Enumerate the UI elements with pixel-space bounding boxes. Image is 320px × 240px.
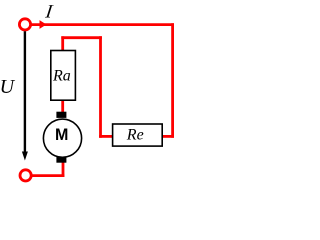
wire: Re right stub [160,135,174,138]
wire: Ra top stub [61,36,64,51]
terminal - (bottom left) [20,170,31,181]
motor M (circle) [43,119,81,157]
wire: middle vertical from branch down to Re left [99,36,102,138]
wire: top horizontal from + terminal to top-right corner [31,23,174,26]
svg-text:Re: Re [126,127,144,144]
resistor Ra (box) [51,51,76,101]
wire: branch horizontal above Ra [61,36,102,39]
motor brush bottom [56,157,66,163]
voltage arrow U (head) [22,152,28,161]
current arrow I [40,20,47,29]
wire: Ra to motor [61,100,64,113]
motor brush top [56,112,66,118]
svg-text:M: M [55,125,68,144]
terminal + (top left) [19,19,30,30]
wire: Re left stub [99,135,114,138]
wire: bottom horizontal to - terminal [32,174,64,177]
voltage arrow U (line) [24,31,26,153]
resistor Re (box) [113,124,163,146]
wire: right vertical down to Re [171,23,174,138]
svg-text:U: U [0,76,16,98]
svg-text:Ra: Ra [52,68,71,85]
wire: motor to bottom wire [62,162,65,177]
